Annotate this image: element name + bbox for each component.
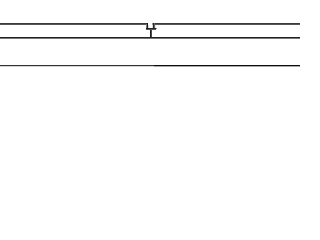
- wire: notch left vertical (AA skirt right): [148, 25, 149, 28]
- wire: bottom conductor, right segment (row B, AA skirt): [154, 66, 300, 67]
- wire: notch right vertical (AA skirt right): [154, 23, 155, 29]
- wire: top conductor, left segment (row B, AA skirt): [0, 24, 148, 25]
- wire: top conductor, right segment (row B, AA skirt): [153, 24, 300, 25]
- wire: notch bottom bar (row B, AA skirt): [146, 29, 156, 30]
- wire: top conductor, right segment (row A): [153, 23, 300, 24]
- wire: notch left vertical (AA skirt left): [146, 24, 147, 29]
- node: notch left corner AA lead-in: [152, 23, 153, 25]
- wire: stub tap vertical (AA skirt): [151, 30, 152, 37]
- wire: notch right vertical (outer faint skirt): [155, 25, 156, 28]
- wire: second conductor (row B, AA skirt): [0, 38, 300, 39]
- wire: bottom conductor, left segment (row A): [0, 65, 154, 66]
- wire: top conductor, left segment (row A): [0, 23, 148, 24]
- node: notch bottom bar right end AA: [156, 28, 157, 29]
- wire: notch bottom bar (row A): [146, 28, 156, 29]
- wire: second conductor (row A): [0, 37, 300, 38]
- wire: stub tap vertical (core): [150, 30, 151, 37]
- wire: bottom conductor, left segment (row B, AA skirt): [0, 66, 154, 67]
- wire: notch left vertical (core): [147, 23, 148, 29]
- wire: bottom conductor, right segment (row A): [154, 65, 300, 66]
- wire: notch right vertical (core): [153, 23, 154, 29]
- wire: notch right vertical (AA skirt left): [152, 25, 153, 28]
